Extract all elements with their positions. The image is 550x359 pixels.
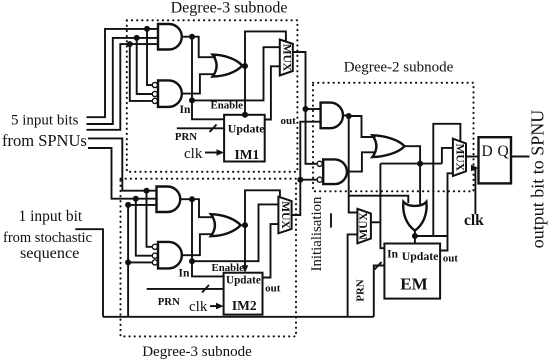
svg-text:Enable: Enable [211,100,244,112]
wire: NAND3 output jog up to OR3 bottom input [347,152,376,171]
gate: NAND1 body (AND with inverted inputs) [158,80,182,107]
gate: NAND3 bubble 2 [317,177,322,182]
svg-text:Degree-3 subnode: Degree-3 subnode [171,0,288,17]
wire: MUX3 output to D flip-flop [466,156,479,158]
svg-text:5 input bits: 5 input bits [11,113,79,129]
wire: vertical AND1-out down to Enable/In junction [191,37,193,101]
svg-text:PRN: PRN [355,279,367,301]
wire: clk1 arrow into IM1 [205,152,221,154]
dashed box: Degree-2 subnode [313,83,474,192]
svg-text:from SPNUs: from SPNUs [2,131,87,150]
mux: MUX3 trapezoid (degree-2 output mux) [453,139,466,176]
node: dot AND3 output [346,113,352,119]
wire: input line 5 (to bottom subnode AND row2) [88,148,157,199]
wire: bottom rail [103,316,374,318]
wire: PRN1 wire into IM1 [177,127,224,129]
wire: bottom rail riser to init MUX input2 [348,234,358,316]
node: dot on IM1 top edge [242,112,248,118]
node: dot OR1 output [242,63,248,69]
wire: OR1 out up over to MUX1 select [245,31,286,66]
wire: Enable wire right and up to MUX1 input1 [192,47,280,100]
wire: left end down to EM In [380,164,384,249]
wire: OR1 out down to IM1 Update (top edge) [244,66,246,115]
node: dot stochastic riser row3 corner [125,202,131,208]
wire: drop input2 to NAND1 bubble2 [137,38,152,94]
svg-text:In: In [387,249,398,261]
box: IM2 [224,273,263,315]
gate: NAND3 body (degree-2) [323,159,347,184]
svg-text:Update: Update [226,275,261,287]
wire: Q output [511,156,530,158]
svg-text:PRN: PRN [158,296,180,308]
gate: NAND1 bubble 3 [152,98,157,103]
gate: OR2 (bottom subnode) [211,214,241,236]
svg-text:Degree-2 subnode: Degree-2 subnode [344,60,454,76]
wire: OR4 out right to EM-out riser [415,235,448,237]
svg-text:In: In [179,268,190,280]
mark: slash on PRN2 wire [202,285,209,293]
mark: clk2 arrowhead [216,303,224,310]
wire: input line 2 [87,38,159,124]
wire: branch horizontal to EM-In and MUX3 input1 [380,163,442,165]
wire: branch to AND3 input 1 [306,108,321,110]
wire: AND1 out jog to OR1 top input [192,37,216,58]
wire: MUX1 output to degree-2 [293,52,317,164]
gate: OR1 (top subnode) [213,55,243,77]
gate: AND3 (degree-2) [321,103,343,129]
box: EM [384,244,440,299]
wire: OR2 out down to IM2 top with arrowhead [244,225,246,269]
svg-text:IM1: IM1 [235,147,260,162]
wire: In wire into IM1 [192,100,224,119]
gate: NAND2 bubble 1 [152,244,157,249]
wire: branch to NAND2 bubble3 [128,261,152,263]
wire: drop input3 to NAND1 bubble3 [130,44,152,101]
wire: input line 1 [87,29,159,117]
wire: 1 input bit wire down to bottom rail [75,229,103,317]
wire: AND2 out jog to OR2 top input [192,199,214,217]
node: dot OR3-out branch [417,161,423,167]
mark: slash on PRN3 wire [375,262,382,270]
svg-text:clk: clk [464,212,484,229]
wire: drop to NAND2 bubble1 [147,191,152,247]
svg-text:PRN: PRN [175,131,197,143]
mux: MUX2 trapezoid (bottom subnode) [278,197,291,234]
wire: AND3 output [343,114,349,116]
gate: AND1 (top subnode 3-input AND) [158,24,182,50]
mark: clk1 arrowhead [217,149,225,156]
mux: MUX1 trapezoid (top subnode) [280,40,293,76]
svg-text:out: out [443,253,459,265]
node: dot MUX1-out branch to AND3 input1 [303,106,309,112]
wire: AND3 out jog to OR3 top input [349,116,376,137]
wire: input line 4 (to bottom subnode AND row1) [88,138,157,190]
node: dot MUX2-out branch to NAND3 bubble2 [297,177,303,183]
wire: riser to MUX3 select over the top [433,124,460,236]
wire: AND2 output [180,198,192,200]
node: dot AND1 output [189,34,195,40]
wire: drop input1 to NAND1 bubble1 [147,29,152,85]
svg-text:Initialisation: Initialisation [309,196,325,271]
wire: PRN3 riser into EM [374,266,385,317]
wire: OR1 out stub [242,65,245,67]
svg-text:EM: EM [400,275,427,294]
wire: AND1 output to junction [182,36,192,38]
svg-text:out: out [265,282,281,294]
svg-text:sequence: sequence [20,244,79,262]
gate: NAND2 bubble 3 [152,260,157,265]
gate: NAND2 bubble 2 [152,253,157,258]
gate: NAND1 bubble 1 [152,82,157,87]
wire: clk2 arrow into IM2 [210,305,221,307]
wire: branch to down-OR left input [349,196,409,203]
wire: EM out up to MUX3 input2 [440,173,453,250]
mux: MUX4 trapezoid (initialisation) [357,209,371,244]
node: dot bottom AND row2 [133,196,139,202]
node: dot OR2 output [242,222,248,228]
wire: drop to NAND2 bubble2 [136,199,152,256]
node: dot AND2 output [189,196,195,202]
gate: OR4 (downward OR) [403,202,426,231]
svg-text:MUX: MUX [279,201,291,229]
node: dot input2 branch [134,35,140,41]
wire: AND3 out down to init MUX input1 with branch [349,116,358,213]
gate: AND2 (bottom subnode) [157,187,181,213]
wire: input line 3 [87,44,159,130]
svg-text:output bit to SPNU: output bit to SPNU [528,110,548,249]
wire: right end up to MUX3 input1 [442,148,453,164]
wire: stochastic riser [128,205,156,317]
svg-text:1 input bit: 1 input bit [19,208,83,225]
gate: NAND1 bubble 2 [152,91,157,96]
wire: OR4 output to EM Update [414,231,416,244]
gate: OR3 (degree-2) [372,135,404,157]
wire: IM1 out up to MUX1 input2 [265,66,280,119]
node: dot bottom AND row1 [144,188,150,194]
wire: MUX4 output to EM-In vertical [371,221,381,223]
svg-text:Degree-3 subnode: Degree-3 subnode [142,344,252,359]
box: IM1 [224,115,265,162]
svg-text:Q: Q [498,143,509,160]
node: dot input1 branch [144,26,150,32]
node: dot Enable/In junction [189,97,195,103]
svg-text:MUX: MUX [358,212,370,240]
wire: In2 into IM2 [192,261,224,276]
svg-text:MUX: MUX [454,144,466,172]
node: dot input3 branch [127,41,133,47]
wire: NAND2 output jog up to OR2 bottom input [182,234,213,255]
wire: OR2 out up over to MUX2 select [245,190,280,225]
svg-text:clk: clk [184,146,203,162]
dashed box: bottom Degree-3 subnode [121,179,297,337]
wire: initialisation stub [330,213,332,227]
dashed box: top Degree-3 subnode [127,20,298,172]
svg-text:Update: Update [228,122,265,136]
wire: Enable2 right and up to MUX2 input1 [192,204,278,261]
node: dot OR4 output [412,233,418,239]
svg-text:out: out [281,115,297,127]
wire: NAND1 output jog up to OR1 bottom input [182,74,215,93]
gate: NAND2 body [158,242,182,269]
gate: NAND3 bubble 1 [317,161,322,166]
svg-text:Update: Update [402,249,439,263]
svg-text:MUX: MUX [280,44,292,72]
mark: slash on PRN1 wire [210,125,217,133]
svg-text:clk: clk [189,299,208,315]
wire: OR3 output right and down to down-OR right input [405,146,421,206]
wire: clk3 up into flip-flop [474,168,477,214]
node: dot stochastic riser bubble3 branch [125,259,131,265]
box: D flip-flop [479,137,512,183]
mark: arrowhead into IM2 top [242,265,249,273]
wire: branch to NAND3 bubble2 [300,179,317,181]
node: dot Enable2/In2 junction [189,258,195,264]
wire: vertical AND2-out down to Enable2 junction [191,199,193,261]
wire: PRN2 wire into IM2 [147,288,224,290]
wire: MUX2 output up to degree-2 [292,122,321,215]
wire: OR2 out stub [241,224,245,226]
svg-text:IM2: IM2 [232,298,257,313]
wire: IM2 out up to MUX2 input2 [263,224,279,277]
svg-text:In: In [180,104,191,116]
mark: clk3 arrowhead at flip-flop [471,165,479,172]
svg-text:D: D [482,143,493,160]
